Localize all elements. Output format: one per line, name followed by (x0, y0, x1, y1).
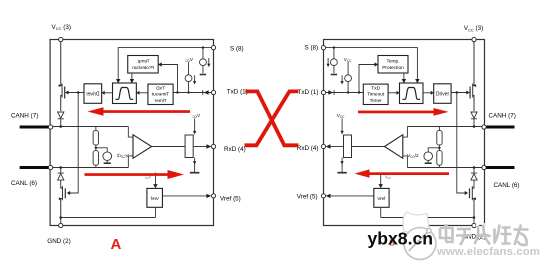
red arrow TX path block B (358, 108, 449, 116)
watermark logo needle (409, 231, 429, 251)
watermark brand glyphs (440, 224, 529, 245)
block B internals (right transceiver) (321, 37, 514, 227)
svg-text:CANL (6): CANL (6) (11, 180, 37, 187)
svg-text:CANL (6): CANL (6) (494, 182, 520, 189)
svg-text:GND (2): GND (2) (47, 238, 70, 245)
block A internals (left transceiver, mirrored) (20, 37, 216, 227)
svg-text:S (8): S (8) (305, 44, 319, 51)
svg-text:VCC (3): VCC (3) (464, 25, 483, 32)
svg-text:A: A (111, 236, 122, 253)
wire red crossover TxD A to RxD B (245, 91, 298, 145)
svg-text:RxD (4): RxD (4) (297, 145, 319, 152)
red arrow RX path block A (85, 170, 185, 179)
svg-text:www.elecfans.com: www.elecfans.com (436, 246, 540, 258)
svg-text:VCC (3): VCC (3) (52, 24, 71, 31)
red arrow TX path block A (88, 107, 191, 115)
watermark logo pivot (427, 228, 431, 232)
svg-text:Vref (5): Vref (5) (297, 194, 318, 201)
svg-text:CANH (7): CANH (7) (489, 112, 516, 119)
svg-text:CANH (7): CANH (7) (11, 113, 38, 120)
watermark url (436, 246, 541, 259)
svg-text:RxD (4): RxD (4) (224, 146, 246, 153)
watermark logo circle (404, 228, 436, 260)
watermark brand glyphs casing (440, 224, 529, 245)
svg-text:TxD (1): TxD (1) (298, 89, 319, 96)
svg-text:ybx8.cn: ybx8.cn (368, 228, 434, 248)
wire red crossover RxD A to TxD B (245, 91, 299, 145)
red arrow RX path block B (355, 169, 450, 177)
svg-text:TxD (1): TxD (1) (227, 89, 248, 96)
watermark logo flag (403, 212, 429, 232)
svg-text:Vref (5): Vref (5) (220, 196, 241, 203)
svg-text:S (8): S (8) (230, 45, 244, 52)
